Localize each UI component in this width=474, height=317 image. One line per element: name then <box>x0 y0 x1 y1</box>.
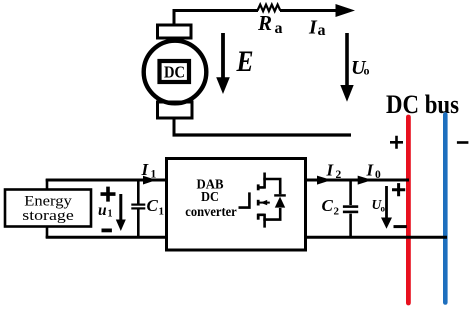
svg-text:1: 1 <box>151 169 157 181</box>
svg-text:2: 2 <box>334 206 340 218</box>
svg-text:o: o <box>364 64 370 78</box>
capacitor C1 wire <box>137 180 140 237</box>
DAB converter box <box>167 159 306 251</box>
wire machine bottom stub <box>173 118 176 136</box>
dc machine top brush <box>158 25 192 38</box>
svg-text:I: I <box>308 17 318 39</box>
mosfet drain-diode top wire <box>263 179 280 194</box>
plus sign u1 <box>101 187 116 202</box>
svg-text:0: 0 <box>375 169 381 181</box>
DC bus negative blue bar <box>443 115 448 303</box>
svg-text:DC bus: DC bus <box>386 90 459 119</box>
body diode triangle <box>275 197 285 208</box>
capacitor C1 plates <box>131 204 145 206</box>
wire resistor to arrow Ia <box>280 9 338 12</box>
voltage arrow uo <box>385 186 388 220</box>
svg-text:storage: storage <box>22 208 74 224</box>
capacitor C2 wire <box>349 180 352 237</box>
bottom rail right <box>305 236 447 239</box>
current arrow I0 <box>358 176 373 185</box>
svg-text:converter: converter <box>185 204 237 219</box>
dc machine circle <box>144 41 207 104</box>
dc machine inner box <box>160 61 190 82</box>
resistor Ra zigzag <box>258 5 281 12</box>
voltage arrow Uo top <box>345 33 349 86</box>
svg-text:o: o <box>381 204 386 214</box>
mosfet source connection <box>257 214 264 228</box>
svg-text:a: a <box>275 20 283 37</box>
svg-text:DC: DC <box>201 190 219 205</box>
wire energy storage to bottom rail <box>46 226 49 238</box>
svg-text:C: C <box>147 196 159 215</box>
wire top armature from machine to resistor <box>173 9 259 12</box>
mosfet drain connection <box>257 173 264 189</box>
svg-text:2: 2 <box>336 169 342 181</box>
svg-text:C: C <box>322 196 334 215</box>
body diode cathode bar <box>274 194 286 196</box>
mosfet Q gate lead <box>239 192 250 207</box>
emf arrow E <box>221 33 225 79</box>
current arrow I2 <box>317 176 332 185</box>
mosfet channel dash top <box>257 184 260 190</box>
svg-text:1: 1 <box>159 206 165 218</box>
plus sign uo <box>392 183 405 196</box>
minus sign uo <box>394 225 407 228</box>
mosfet source-diode bottom wire <box>263 208 280 220</box>
svg-text:1: 1 <box>108 209 113 220</box>
svg-text:DC: DC <box>164 63 185 82</box>
wire vertical stub machine top <box>173 9 176 26</box>
plus sign bus <box>390 136 403 149</box>
voltage arrow u1 <box>119 194 122 222</box>
mosfet channel dash middle <box>257 200 260 206</box>
current arrow Ia head <box>336 4 356 17</box>
energy storage box <box>5 190 91 227</box>
svg-text:R: R <box>257 11 272 35</box>
svg-text:E: E <box>236 45 254 78</box>
wire energy storage to top rail <box>46 179 49 190</box>
top rail right <box>305 179 409 182</box>
DC bus positive red bar <box>406 117 411 303</box>
current arrow I1 <box>143 176 157 185</box>
minus sign bus <box>457 141 469 144</box>
capacitor C2 plates <box>343 205 358 208</box>
svg-text:u: u <box>98 202 107 219</box>
mosfet body arrow <box>260 202 270 204</box>
top rail left <box>46 179 167 182</box>
minus sign u1 <box>102 228 112 232</box>
dc machine bottom brush <box>158 102 193 118</box>
wire armature bottom horizontal <box>173 133 352 136</box>
svg-text:a: a <box>318 22 326 39</box>
bottom rail left <box>46 236 167 239</box>
mosfet channel dash bottom <box>257 214 260 220</box>
